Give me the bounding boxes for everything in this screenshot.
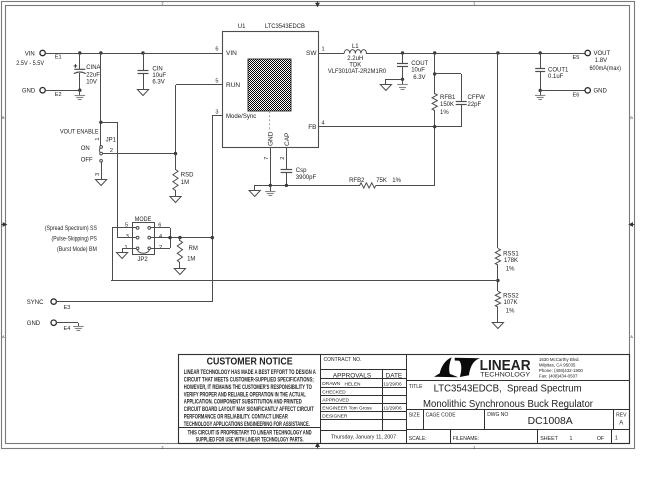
- junction RSS tap: [496, 279, 499, 282]
- svg-text:THIS CIRCUIT IS PROPRIETARY TO: THIS CIRCUIT IS PROPRIETARY TO LINEAR TE…: [188, 429, 312, 436]
- junction RM top: [178, 236, 181, 239]
- svg-text:22pF: 22pF: [468, 102, 482, 108]
- svg-text:CIN: CIN: [152, 66, 162, 72]
- resistor RSD 1M: [175, 154, 177, 170]
- svg-text:SHEET: SHEET: [540, 436, 558, 442]
- junction VIN-CIN: [141, 51, 144, 54]
- svg-text:E1: E1: [55, 55, 62, 61]
- svg-text:HOWEVER, IT REMAINS THE CUSTOM: HOWEVER, IT REMAINS THE CUSTOMER'S RESPO…: [184, 384, 312, 391]
- svg-text:1: 1: [473, 445, 475, 449]
- title block outline: [179, 355, 630, 444]
- wire VOUT to RSS1: [497, 53, 499, 248]
- ground at CIN: [137, 90, 148, 96]
- wire GND pin7: [270, 148, 272, 185]
- resistor RFB2 75K: [360, 183, 376, 188]
- svg-text:2.2uH: 2.2uH: [347, 56, 363, 62]
- svg-text:RSD: RSD: [181, 173, 194, 179]
- svg-text:2: 2: [162, 1, 164, 5]
- svg-text:SCALE:: SCALE:: [409, 436, 427, 442]
- svg-text:RFB1: RFB1: [440, 95, 456, 101]
- wire JP2 pin6: [151, 227, 170, 229]
- terminal E4: [51, 320, 56, 325]
- svg-text:DATE: DATE: [386, 372, 403, 379]
- junction GND pin7: [269, 184, 272, 187]
- svg-text:SYNC: SYNC: [27, 300, 44, 306]
- svg-text:3: 3: [95, 173, 101, 176]
- svg-text:REV: REV: [616, 413, 627, 419]
- svg-text:RUN: RUN: [226, 82, 240, 89]
- capacitor CINA (polarized): [79, 53, 81, 69]
- Linear Technology logo: [406, 380, 630, 382]
- terminal E5: [585, 50, 590, 55]
- svg-text:LTC3543EDCB, Spread Spectrum: LTC3543EDCB, Spread Spectrum: [434, 383, 582, 394]
- ground at JP2 pin1: [117, 253, 128, 259]
- junction COUT1: [539, 51, 542, 54]
- svg-text:1%: 1%: [440, 110, 449, 116]
- svg-text:TECHNOLOGY APPLICATIONS ENGINE: TECHNOLOGY APPLICATIONS ENGINEERING FOR …: [184, 421, 310, 428]
- terminal E6: [585, 88, 590, 93]
- svg-text:APPROVALS: APPROVALS: [333, 372, 371, 379]
- wire RUN pin5: [176, 84, 222, 86]
- wire VIN down to JP1: [100, 53, 102, 146]
- svg-text:(Pulse-Skipping) PS: (Pulse-Skipping) PS: [52, 237, 97, 243]
- wire mode select loop: [111, 280, 498, 282]
- svg-text:0.1uF: 0.1uF: [548, 74, 564, 80]
- svg-text:(Spread Spectrum) SS: (Spread Spectrum) SS: [45, 226, 97, 232]
- ground at RSD: [170, 197, 181, 203]
- svg-text:OF: OF: [597, 436, 605, 442]
- svg-text:ON: ON: [81, 146, 90, 152]
- svg-text:1: 1: [615, 435, 618, 441]
- junction COUT1 gnd: [539, 89, 542, 92]
- wire GND out: [540, 90, 585, 92]
- svg-text:GND: GND: [22, 89, 36, 95]
- svg-text:1M: 1M: [181, 180, 189, 186]
- ground (earth) at CINA: [79, 90, 81, 96]
- svg-text:VIN: VIN: [25, 51, 35, 57]
- junction RFB1: [433, 51, 436, 54]
- resistor RM 1M: [179, 238, 181, 241]
- svg-text:CIRCUIT BOARD LAYOUT MAY SIGNI: CIRCUIT BOARD LAYOUT MAY SIGNIFICANTLY A…: [184, 406, 314, 413]
- svg-text:Mode/Sync: Mode/Sync: [226, 113, 257, 120]
- svg-text:APPROVED: APPROVED: [322, 398, 349, 404]
- svg-text:10V: 10V: [86, 80, 97, 86]
- svg-text:1%: 1%: [392, 178, 401, 184]
- wire E2 to ground: [45, 90, 80, 92]
- svg-text:LINEAR TECHNOLOGY HAS MADE A B: LINEAR TECHNOLOGY HAS MADE A BEST EFFORT…: [184, 369, 316, 376]
- svg-text:E4: E4: [64, 326, 71, 332]
- wire JP2 pin5: [112, 227, 136, 229]
- svg-text:11/29/06: 11/29/06: [383, 406, 402, 412]
- JP2 shunt arc pins1-2: [138, 250, 150, 254]
- svg-text:OFF: OFF: [81, 157, 93, 163]
- wire SYNC: [56, 301, 212, 303]
- wire ground bus under U1: [255, 185, 360, 187]
- terminal E1: [40, 50, 45, 55]
- wire SW pin1: [318, 53, 344, 55]
- svg-text:PERFORMANCE OR RELIABILITY. C: PERFORMANCE OR RELIABILITY. CONTACT LINE…: [184, 414, 288, 421]
- dashed pad-to-GND line: [269, 111, 271, 129]
- junction COUT ground: [401, 78, 404, 81]
- svg-text:SIZE: SIZE: [409, 413, 421, 419]
- svg-text:U1: U1: [238, 24, 246, 30]
- svg-text:COUT: COUT: [411, 61, 428, 67]
- svg-text:Monolithic Synchronous Buck Re: Monolithic Synchronous Buck Regulator: [423, 399, 594, 410]
- svg-text:CONTRACT NO.: CONTRACT NO.: [324, 357, 362, 363]
- svg-text:22uF: 22uF: [86, 72, 100, 78]
- ground (triangle) left of COUT: [386, 79, 402, 81]
- svg-text:SW: SW: [306, 50, 317, 57]
- resistor RSS2 107K: [495, 291, 500, 307]
- svg-text:E5: E5: [573, 55, 580, 61]
- svg-text:1: 1: [124, 245, 127, 251]
- junction FB divider: [433, 125, 436, 128]
- capacitor COUT 10uF: [402, 53, 404, 63]
- junction tie-pin4: [168, 236, 171, 239]
- svg-text:5: 5: [215, 78, 218, 84]
- title text: [406, 409, 630, 411]
- svg-text:APPLICATION. COMPONENT SUBSTI: APPLICATION. COMPONENT SUBSTITUTION AND …: [184, 399, 302, 406]
- svg-text:2: 2: [162, 445, 164, 449]
- svg-text:2: 2: [159, 245, 162, 251]
- svg-text:L1: L1: [352, 44, 359, 50]
- svg-text:E6: E6: [573, 92, 580, 98]
- svg-text:Csp: Csp: [296, 168, 307, 174]
- terminal E3: [51, 299, 56, 304]
- svg-text:CIRCUIT THAT MEETS CUSTOMER-SU: CIRCUIT THAT MEETS CUSTOMER-SUPPLIED SPE…: [184, 376, 314, 383]
- svg-text:CAP: CAP: [284, 133, 291, 146]
- svg-text:6.3V: 6.3V: [413, 75, 425, 81]
- svg-text:TDK: TDK: [349, 62, 361, 68]
- capacitor Csp 3900pF: [286, 148, 288, 170]
- svg-text:A: A: [619, 420, 623, 426]
- junction CINA-GND: [78, 89, 81, 92]
- svg-text:CUSTOMER NOTICE: CUSTOMER NOTICE: [207, 357, 293, 368]
- ground (earth) under COUT: [402, 79, 404, 85]
- svg-text:(Burst Mode) BM: (Burst Mode) BM: [57, 247, 97, 253]
- svg-text:10uF: 10uF: [152, 73, 166, 79]
- svg-text:4: 4: [322, 120, 325, 126]
- svg-text:RM: RM: [189, 246, 198, 252]
- svg-text:75K: 75K: [376, 178, 387, 184]
- svg-text:FILENAME:: FILENAME:: [453, 436, 479, 442]
- ground (triangle) at bus left: [254, 185, 256, 190]
- wire branch to JP2 pin3: [101, 122, 117, 124]
- svg-text:2: 2: [280, 157, 286, 160]
- svg-text:TITLE: TITLE: [409, 384, 423, 390]
- ground at RM: [174, 269, 185, 275]
- wire JP2 pin1 to ground: [122, 248, 136, 250]
- svg-text:CFFW: CFFW: [468, 95, 486, 101]
- svg-text:GND: GND: [268, 131, 275, 146]
- svg-text:SUPPLIED FOR USE WITH LINEAR T: SUPPLIED FOR USE WITH LINEAR TECHNOLOGY …: [196, 436, 304, 443]
- svg-text:7: 7: [264, 157, 270, 160]
- svg-text:VOUT: VOUT: [594, 51, 611, 57]
- wire VIN rail: [45, 53, 222, 55]
- ground at JP1: [96, 180, 107, 186]
- customer notice box: [320, 355, 322, 444]
- svg-text:Milpitas, CA 95035: Milpitas, CA 95035: [539, 362, 576, 367]
- svg-text:JP2: JP2: [137, 257, 148, 263]
- svg-text:600mA(max): 600mA(max): [590, 66, 622, 72]
- svg-text:1: 1: [322, 47, 325, 53]
- svg-text:1: 1: [473, 1, 475, 5]
- svg-text:11/29/06: 11/29/06: [383, 381, 402, 387]
- resistor RFB1 150K: [434, 53, 436, 94]
- svg-text:VIN: VIN: [226, 50, 237, 57]
- svg-text:Phone: (408)432-1900: Phone: (408)432-1900: [539, 368, 583, 373]
- svg-text:1%: 1%: [506, 266, 515, 272]
- wire JP2 pin3: [117, 237, 136, 239]
- scale/filename/sheet row: [450, 430, 452, 444]
- svg-text:ENGINEER Tom Gross: ENGINEER Tom Gross: [322, 406, 372, 412]
- svg-text:COUT1: COUT1: [548, 67, 569, 73]
- wire FB pin4: [318, 126, 461, 128]
- junction COUT: [401, 51, 404, 54]
- wire E4 to ground: [56, 322, 78, 324]
- svg-text:DESIGNER: DESIGNER: [322, 414, 348, 420]
- svg-text:E2: E2: [55, 92, 62, 98]
- svg-text:TECHNOLOGY: TECHNOLOGY: [480, 372, 531, 379]
- svg-text:Fax: (408)434-0507: Fax: (408)434-0507: [539, 373, 578, 378]
- svg-text:LTC3543EDCB: LTC3543EDCB: [265, 24, 305, 30]
- svg-text:Thursday, January 11, 2007: Thursday, January 11, 2007: [331, 435, 396, 441]
- svg-text:HELEN: HELEN: [345, 381, 362, 387]
- svg-text:RSS2: RSS2: [503, 293, 519, 299]
- svg-text:1: 1: [95, 137, 101, 140]
- terminal E2: [40, 88, 45, 93]
- junction RFB1-CFFW top: [433, 72, 436, 75]
- ground (earth) under COUT1: [540, 90, 542, 95]
- svg-text:FB: FB: [308, 124, 316, 131]
- wire JP2 pin4: [151, 237, 212, 239]
- junction RSS branch: [496, 51, 499, 54]
- svg-text:3: 3: [215, 110, 218, 116]
- svg-text:GND: GND: [594, 88, 608, 94]
- svg-text:150K: 150K: [440, 102, 454, 108]
- svg-text:1M: 1M: [187, 256, 195, 262]
- junction VIN-enable branch: [99, 51, 102, 54]
- svg-text:CHECKED: CHECKED: [322, 389, 346, 395]
- wire VOUT rail: [366, 53, 585, 55]
- svg-text:GND: GND: [27, 321, 41, 327]
- wire JP2 right tie: [170, 228, 172, 248]
- svg-text:VERIFY PROPER AND RELIABLE OPE: VERIFY PROPER AND RELIABLE OPERATION IN …: [184, 391, 306, 398]
- ground (earth) under pin7: [270, 185, 272, 191]
- svg-text:10uF: 10uF: [411, 67, 425, 73]
- svg-text:RFB2: RFB2: [349, 178, 365, 184]
- resistor RSS1 178K: [495, 248, 500, 265]
- svg-text:VOUT ENABLE: VOUT ENABLE: [60, 130, 99, 136]
- svg-text:178K: 178K: [504, 258, 518, 264]
- capacitor CFFW 22pF: [435, 73, 461, 75]
- junction CAP/Csp: [285, 184, 288, 187]
- junction RUN-JP1-RSD: [174, 152, 177, 155]
- wire JP1 pin3 to ground: [101, 162, 103, 179]
- svg-text:VLF3010AT-2R2M1R0: VLF3010AT-2R2M1R0: [328, 69, 387, 75]
- svg-text:1630 McCarthy Blvd.: 1630 McCarthy Blvd.: [539, 357, 580, 362]
- ground (earth) at E4: [78, 323, 80, 326]
- capacitor COUT1 0.1uF: [540, 53, 542, 69]
- svg-text:107K: 107K: [504, 300, 518, 306]
- svg-text:DRAWN: DRAWN: [322, 381, 340, 387]
- svg-text:3900pF: 3900pF: [296, 175, 317, 181]
- svg-text:E3: E3: [64, 305, 71, 311]
- wire JP2 pin2: [151, 248, 170, 250]
- svg-text:RSS1: RSS1: [503, 251, 519, 257]
- approvals table: [406, 355, 408, 444]
- wire Mode/Sync pin3: [212, 115, 222, 117]
- capacitor CIN: [143, 53, 145, 71]
- svg-text:2.5V - 5.5V: 2.5V - 5.5V: [16, 61, 44, 67]
- junction pin4-Mode/Sync: [211, 236, 214, 239]
- U1 exposed pad (checkered): [248, 59, 291, 111]
- svg-text:6: 6: [215, 47, 218, 53]
- svg-text:DWG NO: DWG NO: [487, 412, 508, 418]
- svg-text:CINA: CINA: [86, 65, 100, 71]
- JP1 shunt arc pins1-2: [98, 148, 101, 152]
- svg-text:DC1008A: DC1008A: [528, 416, 573, 427]
- svg-text:1: 1: [570, 436, 573, 442]
- svg-text:1%: 1%: [506, 308, 515, 314]
- junction VIN-CINA: [78, 51, 81, 54]
- svg-text:1.8V: 1.8V: [595, 58, 607, 64]
- size/cage/dwg row: [406, 429, 630, 431]
- svg-text:6.3V: 6.3V: [152, 79, 164, 85]
- wire JP1 pin2 to RUN net: [102, 153, 176, 155]
- ground at RSS2: [492, 323, 503, 329]
- svg-text:CAGE CODE: CAGE CODE: [426, 413, 457, 419]
- junction enable/JP2 branch: [99, 121, 102, 124]
- inductor L1 2.2uH: [344, 50, 366, 54]
- svg-text:JP1: JP1: [106, 137, 117, 143]
